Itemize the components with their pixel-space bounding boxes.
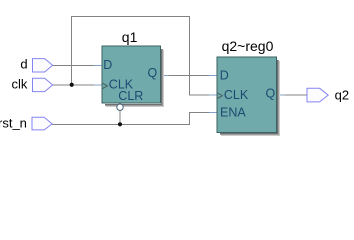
svg-text:D: D: [103, 58, 112, 72]
q2 clock triangle: [217, 93, 222, 99]
wire clk feedback loop (clk net to q2 CLK): [72, 17, 217, 95]
wire q2 Q to output pin: [277, 94, 308, 96]
input pin rst_n: [32, 117, 52, 130]
q1 clock triangle: [102, 83, 107, 89]
output pin q2: [307, 88, 328, 102]
flip-flop q1 body: [102, 46, 161, 103]
port stub q1 Q: [161, 74, 169, 76]
input pin d: [33, 59, 53, 72]
svg-text:clk: clk: [12, 76, 28, 91]
flip-flop q1 shadow: [105, 49, 164, 107]
port stub q2 CLK: [209, 94, 217, 96]
svg-text:rst_n: rst_n: [0, 115, 27, 130]
port stub q2 D: [209, 74, 217, 76]
port stub q1 D: [94, 64, 102, 66]
port stub q1 CLK: [94, 84, 102, 86]
svg-text:Q: Q: [265, 86, 275, 100]
wire d pin to q1 D: [53, 64, 102, 66]
svg-text:D: D: [220, 68, 229, 82]
junction rst_n net: [118, 122, 122, 126]
svg-text:q2: q2: [335, 88, 349, 103]
svg-text:CLR: CLR: [118, 89, 143, 103]
wire q1 Q to q2 D: [161, 74, 218, 76]
q1 CLR bubble: [117, 104, 123, 110]
flip-flop q2 body: [217, 57, 277, 133]
svg-text:Q: Q: [147, 66, 157, 80]
flip-flop q2 shadow: [220, 60, 280, 136]
wire branch rst_n to q1 CLR bubble: [119, 111, 121, 125]
svg-text:CLK: CLK: [224, 88, 249, 102]
port stub q2 ENA: [209, 111, 217, 113]
svg-text:q1: q1: [122, 29, 138, 45]
svg-text:q2~reg0: q2~reg0: [222, 38, 274, 54]
port stub q2 Q: [277, 94, 285, 96]
svg-text:ENA: ENA: [220, 105, 246, 119]
junction clk net: [70, 83, 74, 87]
wire rst_n to corner and q2 ENA: [52, 112, 217, 124]
input pin clk: [33, 78, 53, 91]
wire clk pin to q1 CLK: [53, 84, 102, 86]
svg-text:d: d: [20, 57, 27, 72]
